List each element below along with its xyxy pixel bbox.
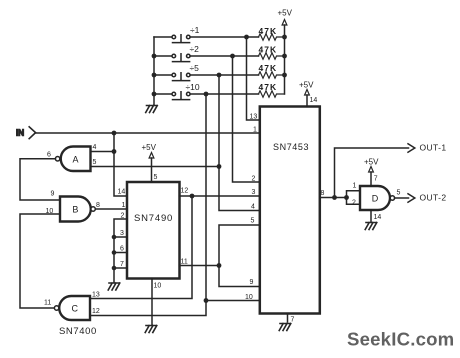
svg-text:+5V: +5V [142, 143, 157, 152]
svg-text:OUT-2: OUT-2 [420, 193, 447, 203]
wire: gate C pin 13 to QA line [90, 196, 192, 299]
svg-text:÷5: ÷5 [190, 63, 200, 73]
svg-text:9: 9 [51, 191, 55, 198]
svg-text:3: 3 [252, 189, 256, 196]
svg-text:+5V: +5V [299, 81, 314, 90]
wire: gate D input branches [347, 191, 361, 205]
gate D (NAND buffer) [360, 186, 395, 210]
wire: gate C pin 12 up to div10 column [90, 94, 206, 316]
SN7453 IC box [260, 107, 320, 314]
svg-text:1: 1 [353, 183, 357, 190]
ground: SN7490 pin 10 [145, 326, 157, 333]
svg-text:B: B [72, 205, 78, 215]
switch rail (left) [153, 37, 155, 94]
node: div10 tap [204, 92, 209, 97]
node: pin7 junction [112, 266, 117, 271]
wire: SN7453 pin 5 to pin 9 column [219, 225, 260, 287]
svg-text:13: 13 [250, 114, 258, 121]
svg-text:5: 5 [93, 159, 97, 166]
wire: gate C output to gate B input 10 [20, 214, 60, 308]
svg-text:5: 5 [251, 218, 255, 225]
switch div-by-10 [154, 82, 259, 100]
wire: to SN7453 pin 10 [206, 300, 260, 302]
svg-text:8: 8 [96, 202, 100, 209]
wire: gate A pin 5 to divide-by-5 column [91, 166, 220, 168]
svg-text:47K: 47K [259, 82, 278, 92]
ground: SN7490 pins 2367 [108, 283, 120, 290]
node: OUT-1 tap [332, 195, 337, 200]
svg-text:11: 11 [181, 259, 188, 266]
node: div2 tap [230, 54, 235, 59]
svg-text:7: 7 [374, 176, 378, 183]
node: rail row2 [152, 54, 157, 59]
node: rail row4 [152, 92, 157, 97]
svg-text:10: 10 [245, 294, 253, 301]
svg-text:7: 7 [291, 317, 295, 324]
switch div-by-5 [154, 63, 259, 81]
node: QA junction to gate C pin 13 [190, 194, 195, 199]
node: div1 tap [244, 35, 249, 40]
svg-text:5: 5 [154, 174, 158, 181]
input connector IN [16, 127, 36, 139]
resistor R3 47K [259, 63, 285, 78]
ground: SN7453 pin 7 [279, 324, 291, 331]
power +5V for SN7453 [299, 81, 314, 107]
wire: gate A pin 4 [91, 151, 115, 153]
arrow: OUT-2 [408, 194, 415, 202]
node: junction gate A pin5 / div5 column [217, 164, 222, 169]
svg-text:14: 14 [310, 97, 318, 104]
wire: SN7490 grounded pins 2,3,6,7 bus [114, 219, 127, 283]
wire: div2 to SN7453 pin 2 [233, 56, 260, 182]
svg-text:12: 12 [181, 188, 189, 195]
node: junction div10 / SN7453 pin 10 [204, 298, 209, 303]
svg-text:C: C [72, 304, 79, 314]
svg-text:11: 11 [44, 300, 51, 307]
wire: SN7453 pin 7 to ground [287, 314, 289, 323]
switch div-by-2 [154, 44, 259, 62]
svg-text:2: 2 [352, 200, 356, 207]
svg-text:3: 3 [120, 230, 124, 237]
node: pin6 junction [112, 250, 117, 255]
svg-text:10: 10 [154, 283, 162, 290]
svg-text:6: 6 [120, 246, 124, 253]
svg-text:D: D [372, 194, 379, 204]
svg-text:÷10: ÷10 [186, 82, 200, 92]
wire: gate B output to SN7490 pin 1 [96, 208, 127, 210]
svg-text:SN7400: SN7400 [59, 326, 97, 337]
wire: gate A output to gate B input 9 [20, 159, 60, 200]
power +5V for gate D [364, 158, 379, 187]
svg-text:OUT-1: OUT-1 [420, 143, 447, 153]
wire: SN7490 pin 11 output [180, 265, 220, 267]
power +5V pull-up rail [278, 9, 293, 95]
resistor R1 47K [259, 26, 285, 40]
node: rail R3 [282, 73, 287, 78]
wire: IN net horizontal to SN7453 pin 1 [36, 132, 260, 134]
svg-text:SN7490: SN7490 [134, 213, 173, 224]
node: rail R1 [282, 35, 287, 40]
svg-text:1: 1 [122, 202, 126, 209]
svg-text:47K: 47K [259, 26, 278, 36]
svg-text:4: 4 [251, 204, 255, 211]
node: rail R2 [282, 54, 287, 59]
svg-text:12: 12 [92, 308, 100, 315]
svg-text:+5V: +5V [278, 9, 293, 18]
svg-text:÷1: ÷1 [190, 25, 200, 35]
svg-text:4: 4 [93, 144, 97, 151]
svg-text:5: 5 [397, 190, 401, 197]
svg-text:1: 1 [253, 127, 257, 134]
svg-text:IN: IN [16, 128, 24, 137]
ground: switch rail [146, 106, 158, 113]
wire: div1 to SN7453 pin 13 [247, 37, 260, 120]
svg-text:47K: 47K [259, 63, 278, 73]
switch div-by-1 [154, 25, 259, 43]
svg-text:8: 8 [321, 190, 325, 197]
svg-text:+5V: +5V [364, 158, 379, 167]
wire: OUT-1 branch [335, 148, 409, 198]
ground: gate D [365, 223, 377, 230]
node: rail row3 [152, 73, 157, 78]
node: pin3 junction [112, 235, 117, 240]
svg-text:2: 2 [252, 176, 256, 183]
arrow: OUT-1 [408, 144, 415, 152]
svg-text:10: 10 [46, 208, 54, 215]
wire: OUT-2 [395, 197, 409, 199]
wire: gate D pin 14 to ground [370, 210, 372, 222]
svg-text:SN7453: SN7453 [273, 142, 309, 152]
svg-text:9: 9 [250, 279, 254, 286]
svg-text:SeekIC.com: SeekIC.com [347, 329, 454, 350]
gate B (SN7400 NAND) [60, 196, 95, 221]
svg-text:7: 7 [120, 261, 124, 268]
resistor R2 47K [259, 44, 285, 59]
wire: div5 to SN7453 pin 4 [219, 75, 260, 211]
node: gate D input tap [344, 195, 349, 200]
gate C (SN7400 NAND, mirrored) [54, 296, 90, 320]
svg-text:13: 13 [92, 292, 100, 299]
wire: SN7490 pin 10 to ground [151, 279, 153, 325]
wire: IN drop to SN7490 pin 14 [114, 133, 127, 196]
svg-text:14: 14 [374, 214, 382, 221]
node: div5 tap [217, 73, 222, 78]
node: gate A pin 4 tap [112, 149, 117, 154]
svg-text:47K: 47K [259, 44, 278, 54]
resistor R4 47K [259, 82, 285, 97]
svg-text:6: 6 [47, 152, 51, 159]
node: junction pin11 / pin5-pin9 column [217, 263, 222, 268]
gate A (SN7400 NAND, mirrored) [55, 147, 90, 172]
svg-text:14: 14 [118, 189, 126, 196]
wire: SN7453 pin 8 output [320, 197, 347, 199]
wire: rail stub to ground [153, 94, 155, 105]
node: IN junction to gate A / SN7490 pin 14 [112, 131, 117, 136]
svg-text:A: A [73, 155, 79, 165]
SN7490 IC box [127, 182, 180, 279]
svg-text:÷2: ÷2 [190, 44, 200, 54]
wire: SN7490 pin 12 (QA) to SN7453 pin 3 [180, 195, 260, 197]
power +5V for SN7490 [142, 143, 157, 182]
